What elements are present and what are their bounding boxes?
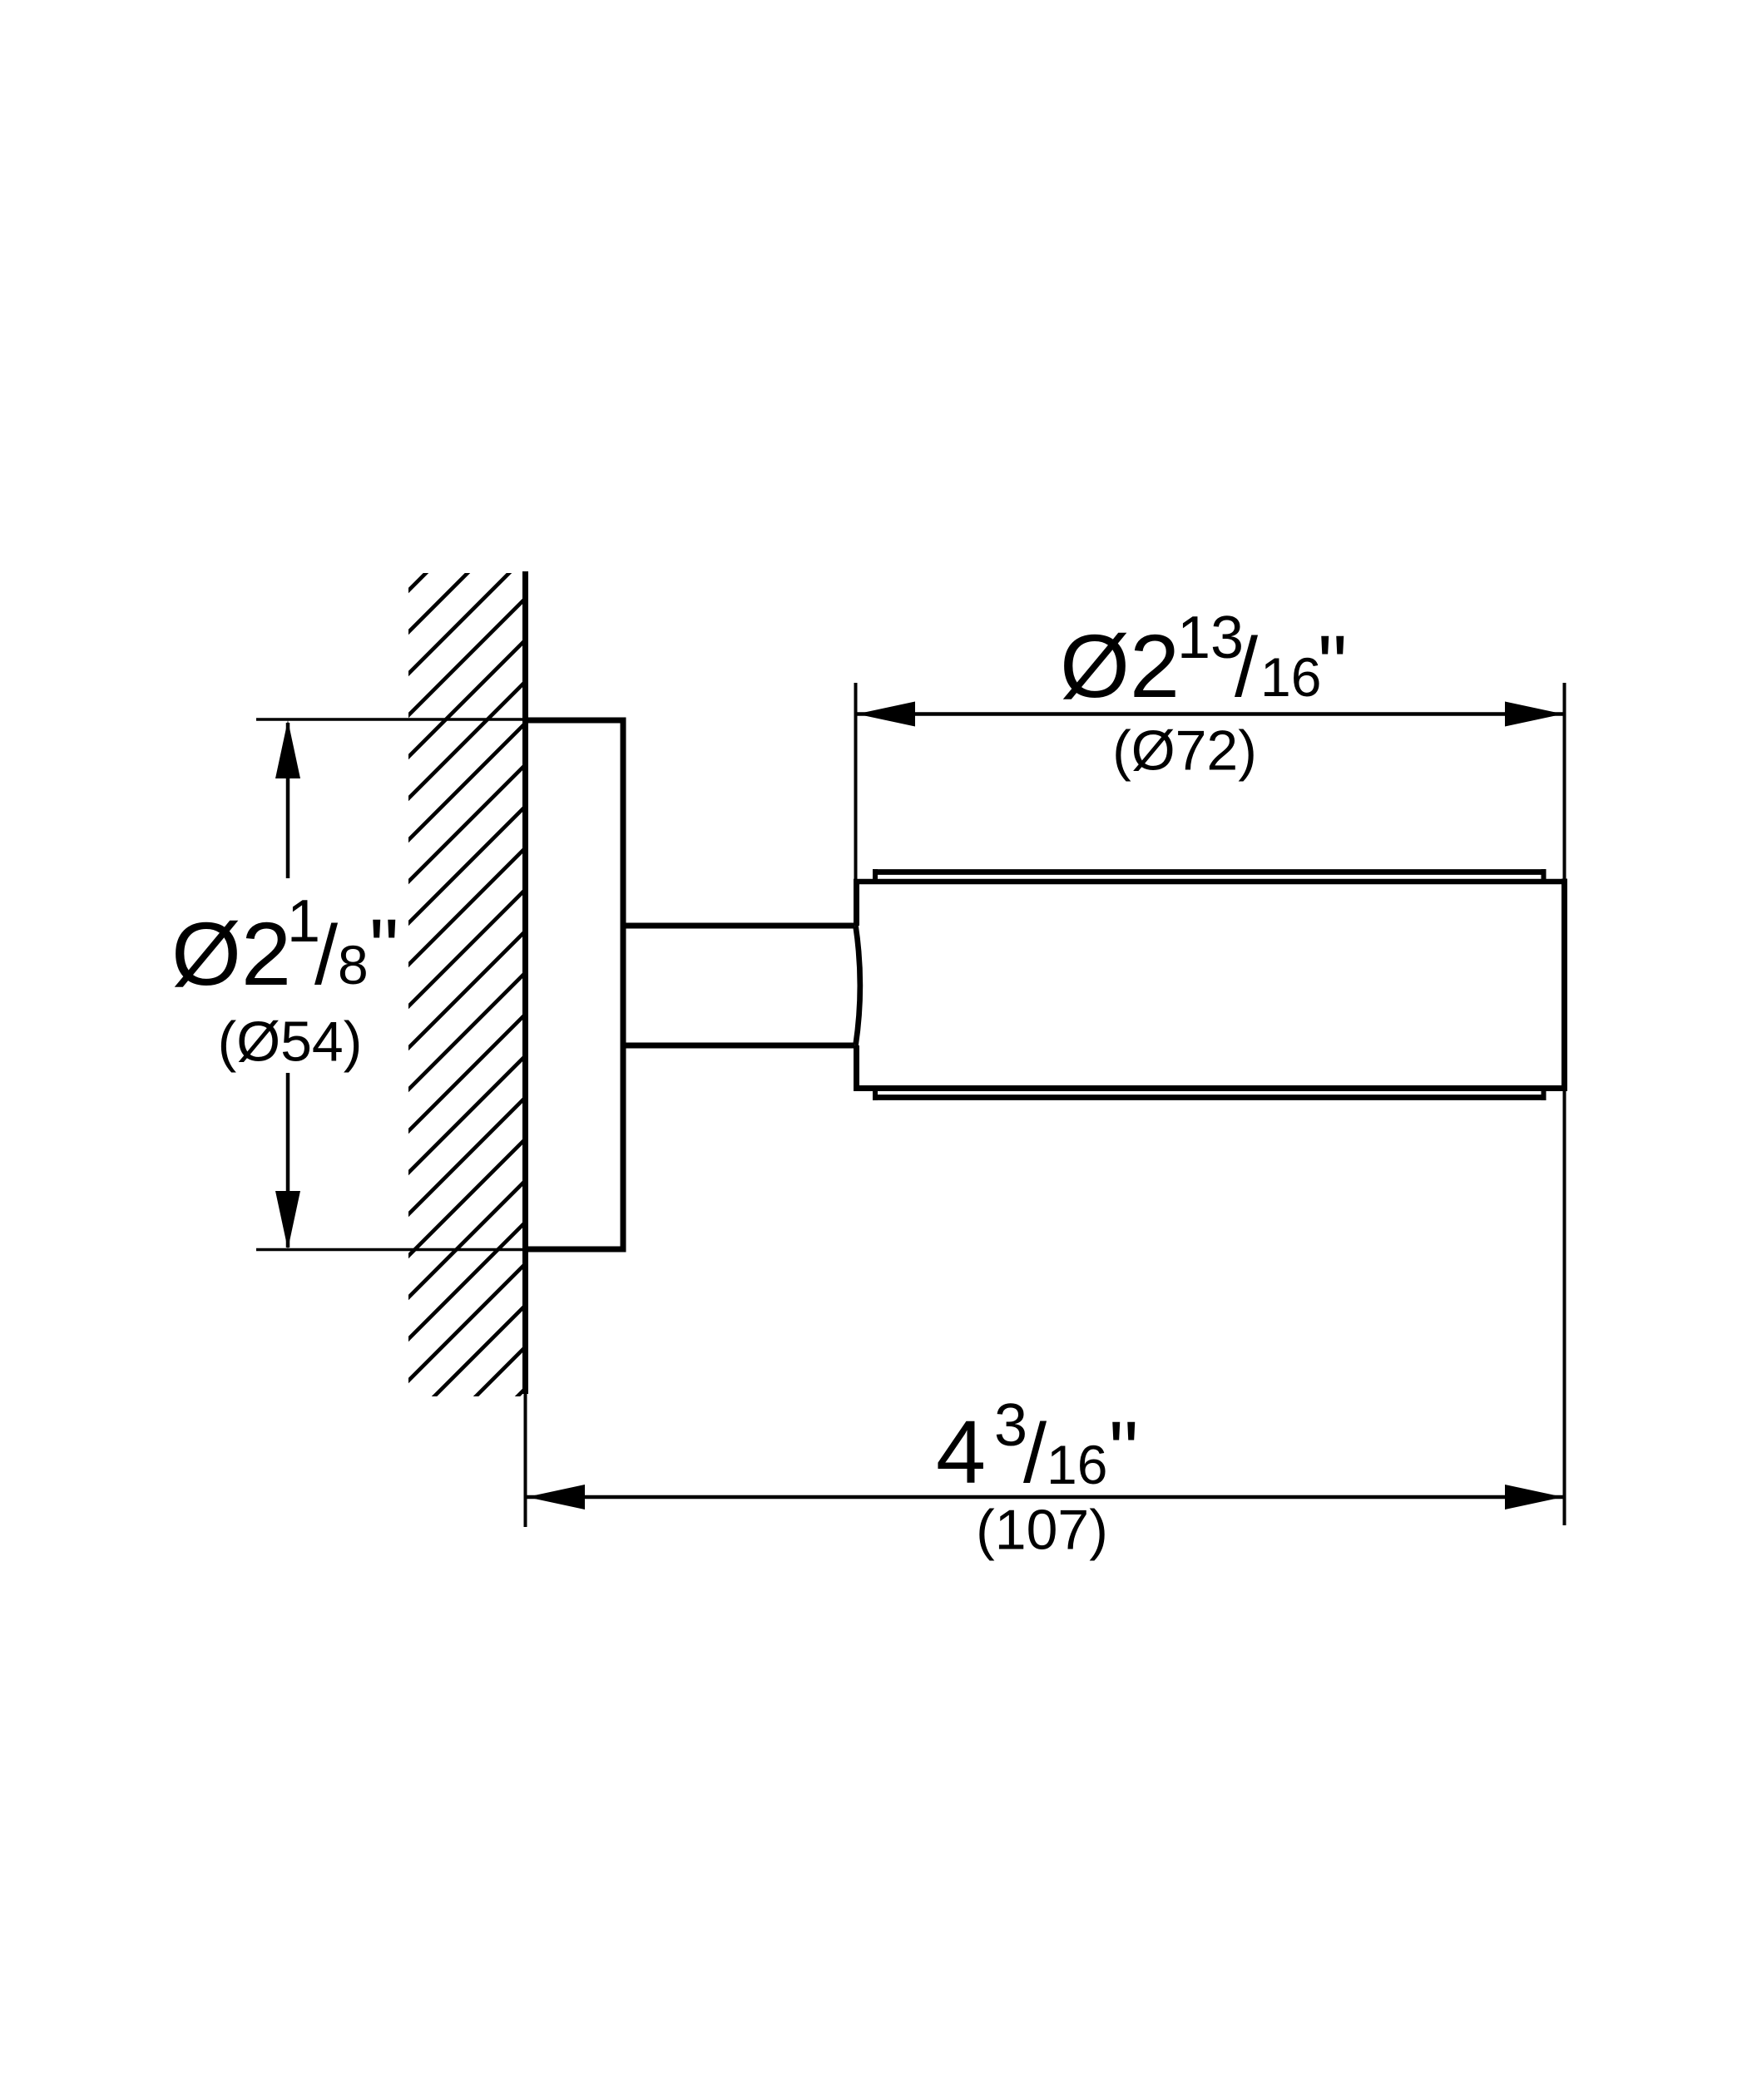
arm end arc on holder face xyxy=(856,926,860,1045)
extension line top of plate xyxy=(256,718,525,721)
holder right edge xyxy=(1561,879,1567,1092)
wall hatching xyxy=(408,573,522,1396)
top rim right step xyxy=(1542,869,1547,884)
bottom rim line thick xyxy=(873,1094,1547,1100)
svg-text:(107): (107) xyxy=(976,1499,1108,1562)
wall plate (escutcheon) xyxy=(526,720,624,1249)
wall extension line (thin, to bottom dimension) xyxy=(524,1394,527,1527)
left dimension line upper segment with up arrowhead xyxy=(286,723,290,878)
svg-text:(Ø72): (Ø72) xyxy=(1112,719,1257,783)
svg-text:Ø2: Ø2 xyxy=(1060,615,1180,716)
bottom dimension left arrowhead xyxy=(527,1485,585,1510)
arm bottom edge xyxy=(623,1043,854,1049)
svg-text:4: 4 xyxy=(936,1401,986,1502)
svg-text:/: / xyxy=(314,909,339,1002)
svg-text:": " xyxy=(1109,1405,1139,1498)
svg-text:/: / xyxy=(1023,1407,1047,1500)
svg-text:": " xyxy=(1318,619,1348,712)
wall face line xyxy=(522,571,528,1394)
top dimension extension line right / shared xyxy=(1563,683,1566,1525)
bottom dimension line xyxy=(527,1495,1563,1500)
svg-text:8: 8 xyxy=(338,934,369,996)
bottom dimension text xyxy=(936,1392,1139,1502)
top rim line thick xyxy=(873,869,1547,875)
bottom rim left step xyxy=(873,1085,878,1100)
left dimension text xyxy=(171,888,399,1004)
svg-text:16: 16 xyxy=(1047,1434,1107,1495)
arm top edge xyxy=(623,923,854,929)
left dimension line lower segment with down arrowhead xyxy=(286,1073,290,1248)
holder left edge lower segment xyxy=(854,1045,859,1091)
svg-text:Ø2: Ø2 xyxy=(171,903,291,1004)
svg-text:(Ø54): (Ø54) xyxy=(218,1010,363,1074)
bottom rim right step xyxy=(1542,1085,1547,1100)
holder bottom edge xyxy=(854,1085,1567,1091)
top dimension right arrowhead xyxy=(1505,702,1563,727)
top rim left step xyxy=(873,869,878,884)
holder left edge upper segment xyxy=(854,879,859,926)
top dimension text xyxy=(1060,605,1348,716)
bottom dimension right arrowhead xyxy=(1505,1485,1563,1510)
extension line bottom of plate xyxy=(256,1248,525,1252)
top dimension extension line left xyxy=(854,683,858,880)
svg-text:16: 16 xyxy=(1260,646,1321,708)
svg-text:": " xyxy=(369,902,399,996)
top dimension left arrowhead xyxy=(857,702,915,727)
holder top edge xyxy=(854,879,1567,885)
svg-text:/: / xyxy=(1235,621,1259,714)
top dimension line xyxy=(857,712,1563,716)
